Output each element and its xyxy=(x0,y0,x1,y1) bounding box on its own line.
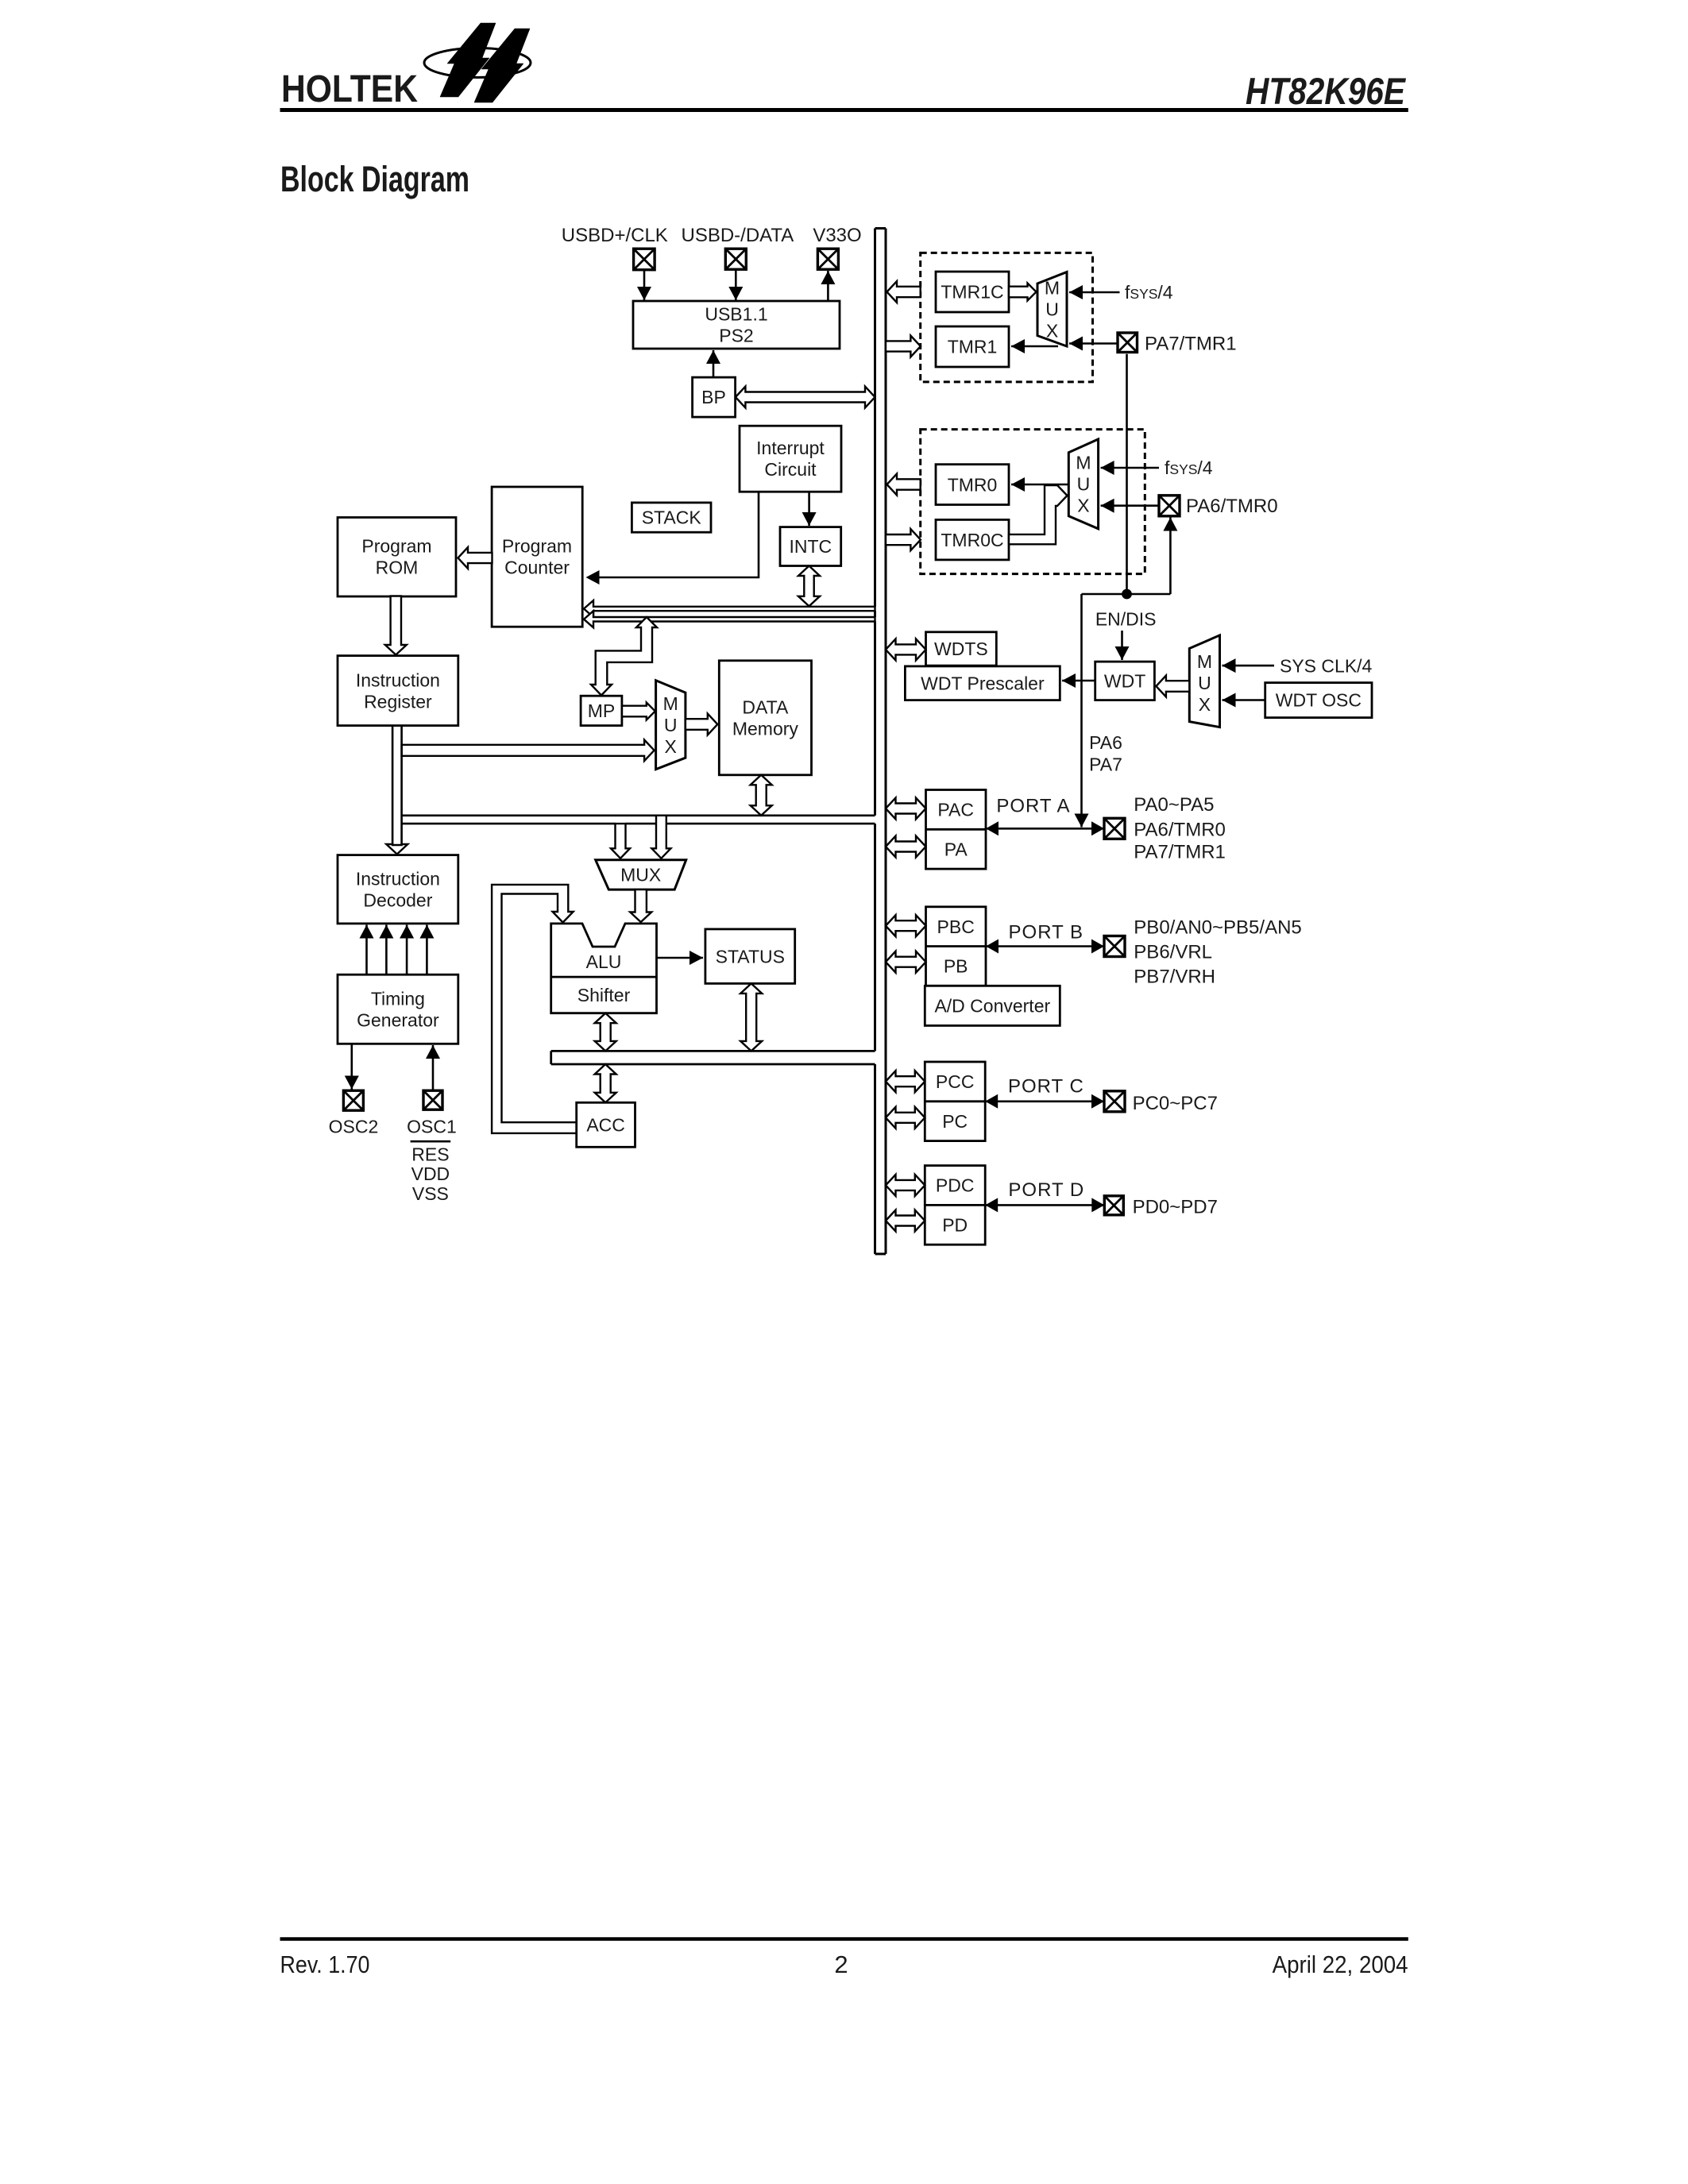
mux MUX timer0 xyxy=(1068,439,1098,529)
block INTC xyxy=(780,527,841,566)
svg-text:USBD+/CLK: USBD+/CLK xyxy=(562,225,668,246)
wire junction down to Port A xyxy=(1080,594,1083,828)
bus data line B to Program Counter xyxy=(584,611,875,627)
svg-text:PDC: PDC xyxy=(936,1175,975,1196)
bus arrow STATUS to data bus xyxy=(740,983,762,1051)
wire PA6/TMR0 pad to timer0 MUX xyxy=(1101,504,1159,507)
block TMR1 xyxy=(936,326,1009,367)
svg-text:PORT B: PORT B xyxy=(1009,921,1083,943)
pad V33O xyxy=(817,249,838,269)
svg-text:HT82K96E: HT82K96E xyxy=(1246,70,1406,112)
svg-text:WDT OSC: WDT OSC xyxy=(1276,690,1362,711)
svg-text:WDT: WDT xyxy=(1104,671,1145,692)
svg-text:ALU: ALU xyxy=(586,951,622,972)
system bus bottom cap xyxy=(875,1252,886,1255)
svg-text:OSC2: OSC2 xyxy=(329,1117,379,1137)
svg-text:WDT Prescaler: WDT Prescaler xyxy=(921,673,1045,694)
svg-text:HOLTEK: HOLTEK xyxy=(281,68,418,110)
wire Timing Generator to Instruction Decoder 3 xyxy=(406,925,408,975)
svg-text:PA6: PA6 xyxy=(1089,732,1122,753)
bus arrow MUX to ALU xyxy=(630,889,651,922)
wire Timing Generator to OSC2 pad xyxy=(350,1044,353,1089)
block WDT xyxy=(1095,662,1155,700)
wire PA7 pad down to junction xyxy=(1126,354,1128,594)
block Instruction Decoder xyxy=(338,855,458,924)
svg-text:STACK: STACK xyxy=(642,507,702,528)
node junction PA7 line xyxy=(1122,589,1132,600)
svg-text:TMR0: TMR0 xyxy=(948,474,998,495)
block A/D Converter xyxy=(925,986,1060,1025)
wire WDT OSC to WDT MUX xyxy=(1223,699,1265,701)
wire ALU to STATUS xyxy=(657,957,704,959)
bus arrow TMR1C to MUX xyxy=(1009,284,1037,301)
wire USBD-/DATA to USB block xyxy=(735,270,737,300)
svg-text:PB0/AN0~PB5/AN5: PB0/AN0~PB5/AN5 xyxy=(1134,917,1301,939)
wire MUX to TMR1 xyxy=(1011,345,1058,348)
svg-text:EN/DIS: EN/DIS xyxy=(1095,609,1157,630)
svg-text:PS2: PS2 xyxy=(719,326,753,346)
pad OSC2 xyxy=(343,1090,363,1110)
wire Port A to pad xyxy=(986,828,1104,830)
block Program ROM xyxy=(338,518,456,597)
svg-text:PORT C: PORT C xyxy=(1008,1075,1084,1097)
bus arrow MP to MUX xyxy=(622,703,655,720)
internal data bus channel xyxy=(551,1051,875,1064)
wire Interrupt Circuit to INTC xyxy=(808,492,810,526)
svg-text:PA7/TMR1: PA7/TMR1 xyxy=(1134,842,1226,863)
bus arrow system bus to PCC xyxy=(886,1071,925,1092)
svg-text:Timing: Timing xyxy=(371,988,425,1009)
bus arrow INTC to data line xyxy=(798,566,820,607)
block PBC and PB xyxy=(926,907,987,986)
svg-text:Instruction: Instruction xyxy=(356,868,440,889)
system bus right rail xyxy=(885,229,887,1254)
bus arrow system bus to TMR0C xyxy=(886,529,921,550)
svg-text:M: M xyxy=(1045,278,1060,299)
bus arrow TMR0C to MUX elbow xyxy=(1009,485,1068,544)
svg-text:Counter: Counter xyxy=(504,558,570,578)
block Timing Generator xyxy=(338,974,458,1044)
svg-text:Memory: Memory xyxy=(732,719,799,739)
bus arrow system bus to PC xyxy=(886,1107,925,1129)
dashed box Timer 1 xyxy=(921,253,1093,382)
wire fsys/4 to timer1 MUX xyxy=(1069,291,1120,294)
svg-text:USBD-/DATA: USBD-/DATA xyxy=(682,225,794,246)
svg-text:M: M xyxy=(663,693,678,714)
svg-text:U: U xyxy=(1198,673,1211,693)
wire Port C to pad xyxy=(985,1101,1104,1103)
mux MUX WDT clock xyxy=(1189,635,1219,727)
svg-text:M: M xyxy=(1076,453,1091,473)
svg-text:PAC: PAC xyxy=(937,800,974,820)
block WDT Prescaler xyxy=(905,666,1060,700)
svg-text:MUX: MUX xyxy=(620,865,661,886)
svg-text:PCC: PCC xyxy=(936,1071,975,1092)
svg-text:STATUS: STATUS xyxy=(716,946,785,967)
svg-text:PD0~PD7: PD0~PD7 xyxy=(1133,1196,1218,1217)
bus arrow system bus to PB xyxy=(886,951,926,973)
svg-text:ACC: ACC xyxy=(586,1115,625,1136)
svg-text:VDD: VDD xyxy=(411,1163,450,1184)
wire fsys/4 to timer0 MUX xyxy=(1101,467,1159,469)
pad USBD+/CLK xyxy=(634,249,655,270)
block STACK xyxy=(632,503,711,532)
wire Instruction Register down-channel xyxy=(392,726,402,845)
bus arrow to Instruction Decoder head xyxy=(386,844,408,855)
svg-text:ROM: ROM xyxy=(376,558,419,578)
pad OSC1 xyxy=(423,1090,442,1109)
bus arrow TMR0 to system bus xyxy=(887,474,921,496)
wire Interrupt Circuit to Program Counter xyxy=(588,492,759,577)
bus arrow Program Counter to Program ROM xyxy=(458,547,492,569)
svg-text:Circuit: Circuit xyxy=(764,459,817,480)
mux MUX timer1 xyxy=(1037,272,1067,347)
bus arrow ACC feedback to ALU xyxy=(492,885,577,1133)
Holtek logo ellipse xyxy=(424,48,531,78)
svg-text:V33O: V33O xyxy=(813,225,861,246)
bus arrow Instruction Register to MUX xyxy=(402,740,655,762)
svg-text:PORT D: PORT D xyxy=(1008,1179,1084,1201)
svg-text:PB: PB xyxy=(944,956,968,977)
block TMR0C xyxy=(936,519,1009,560)
svg-text:2: 2 xyxy=(834,1951,848,1978)
bus arrow system bus to PAC xyxy=(886,798,926,820)
svg-text:PB7/VRH: PB7/VRH xyxy=(1134,967,1215,988)
block WDT OSC xyxy=(1265,683,1372,718)
svg-text:DATA: DATA xyxy=(742,697,789,718)
bus data line A to Program Counter xyxy=(584,600,875,617)
Holtek logo flash 1 xyxy=(440,23,496,97)
svg-text:Generator: Generator xyxy=(357,1009,439,1030)
svg-text:Program: Program xyxy=(502,536,572,557)
system bus left rail xyxy=(874,229,876,1254)
block Program Counter xyxy=(492,487,582,627)
bus arrow system bus to PBC xyxy=(886,915,926,936)
svg-text:Interrupt: Interrupt xyxy=(756,438,825,458)
svg-text:X: X xyxy=(1199,694,1211,715)
svg-text:TMR0C: TMR0C xyxy=(941,530,1003,550)
svg-text:PD: PD xyxy=(942,1215,968,1236)
data channel E to bus xyxy=(402,816,875,824)
bus arrow TMR1C to system bus xyxy=(887,281,921,303)
header rule xyxy=(280,108,1408,112)
svg-text:PA7: PA7 xyxy=(1089,754,1122,775)
pad PA6/TMR0 xyxy=(1159,496,1180,516)
bus arrow system bus to PDC xyxy=(886,1175,925,1196)
block STATUS xyxy=(705,929,795,984)
svg-text:BP: BP xyxy=(701,387,726,407)
block Instruction Register xyxy=(338,656,458,726)
bus arrow MUX to WDT xyxy=(1156,676,1189,697)
block PDC and PD xyxy=(925,1166,985,1245)
bus arrow BP to system bus xyxy=(736,387,875,408)
svg-text:MP: MP xyxy=(588,700,616,721)
wire USBD+/CLK to USB block xyxy=(643,270,646,300)
wire USB block to V33O pad xyxy=(827,271,829,301)
wire PA7/TMR1 pad to timer1 MUX xyxy=(1069,342,1118,345)
footer rule xyxy=(280,1937,1408,1941)
svg-text:U: U xyxy=(664,715,678,735)
dashed box Timer 0 xyxy=(921,430,1145,574)
wire BP to USB block xyxy=(713,350,715,377)
svg-text:April 22, 2004: April 22, 2004 xyxy=(1273,1951,1408,1978)
Holtek logo flash 2 xyxy=(474,29,530,102)
pad Port A xyxy=(1104,818,1125,839)
svg-text:PC: PC xyxy=(942,1111,968,1132)
bus arrow channel to MUX left xyxy=(611,824,630,859)
svg-text:Program: Program xyxy=(361,536,431,557)
wire OSC1 pad to Timing Generator xyxy=(432,1045,435,1090)
svg-text:PA6/TMR0: PA6/TMR0 xyxy=(1134,819,1226,840)
bus arrow system bus to PA xyxy=(886,836,926,858)
svg-text:USB1.1: USB1.1 xyxy=(705,304,767,325)
block TMR0 xyxy=(936,465,1009,505)
svg-text:X: X xyxy=(665,736,677,757)
svg-text:PA7/TMR1: PA7/TMR1 xyxy=(1145,334,1237,355)
bus arrow system bus to TMR1 xyxy=(886,336,921,357)
svg-text:Register: Register xyxy=(364,691,432,712)
system bus top cap xyxy=(875,227,886,230)
svg-text:RES: RES xyxy=(411,1144,449,1165)
block MP xyxy=(581,696,622,725)
wire WDT to WDT Prescaler xyxy=(1062,680,1095,682)
mux MUX ALU input xyxy=(596,860,686,889)
pad USBD-/DATA xyxy=(725,249,746,269)
svg-text:PBC: PBC xyxy=(937,916,975,937)
bus arrow system bus to WDTS xyxy=(886,639,926,660)
wire Port D to pad xyxy=(985,1204,1104,1206)
svg-text:INTC: INTC xyxy=(789,536,832,557)
wire Timing Generator to Instruction Decoder 4 xyxy=(426,925,428,975)
bus arrow system bus to PD xyxy=(886,1210,925,1232)
svg-text:PORT A: PORT A xyxy=(996,796,1070,817)
bus arrow Shifter to data bus xyxy=(595,1013,616,1051)
bus arrow Program ROM to Instruction Register xyxy=(385,596,407,655)
svg-text:X: X xyxy=(1046,321,1058,341)
block PCC and PC xyxy=(925,1062,985,1141)
block Data Memory xyxy=(719,661,811,775)
svg-text:U: U xyxy=(1045,299,1059,320)
block TMR1C xyxy=(936,272,1009,312)
wire Port B to pad xyxy=(986,945,1104,947)
block PAC and PA xyxy=(926,790,987,870)
svg-text:PC0~PC7: PC0~PC7 xyxy=(1133,1093,1218,1114)
wire junction horizontal xyxy=(1082,593,1171,596)
block USB1.1 PS2 xyxy=(633,301,840,349)
wire Timing Generator to Instruction Decoder 2 xyxy=(385,925,388,975)
bus arrow data line to MP xyxy=(591,617,657,696)
svg-text:Shifter: Shifter xyxy=(577,985,631,1005)
svg-text:TMR1C: TMR1C xyxy=(941,282,1003,303)
svg-text:WDTS: WDTS xyxy=(934,639,988,659)
wire MUX to TMR0 xyxy=(1011,484,1068,486)
svg-text:Decoder: Decoder xyxy=(363,889,432,910)
block WDTS xyxy=(926,632,997,666)
block ALU with Shifter xyxy=(551,924,657,1013)
pad Port D xyxy=(1104,1196,1123,1215)
bus arrow Data Memory to data bus xyxy=(751,775,772,816)
wire SYS CLK/4 to WDT MUX xyxy=(1223,665,1275,667)
pad PA7/TMR1 xyxy=(1118,333,1138,353)
svg-text:SYS CLK/4: SYS CLK/4 xyxy=(1280,655,1373,676)
pad Port C xyxy=(1104,1091,1125,1112)
wire junction up to PA6 pad xyxy=(1169,518,1172,595)
svg-text:M: M xyxy=(1197,651,1212,672)
wire EN/DIS to WDT xyxy=(1121,631,1123,660)
svg-text:PA: PA xyxy=(944,839,968,859)
block Interrupt Circuit xyxy=(740,426,841,492)
svg-text:Rev. 1.70: Rev. 1.70 xyxy=(280,1951,370,1978)
bus arrow data bus to ACC xyxy=(595,1064,616,1102)
block ACC xyxy=(577,1102,635,1147)
pad Port B xyxy=(1104,936,1125,957)
svg-text:PA0~PA5: PA0~PA5 xyxy=(1134,794,1214,816)
svg-text:U: U xyxy=(1077,474,1091,495)
svg-text:OSC1: OSC1 xyxy=(407,1117,457,1137)
svg-text:TMR1: TMR1 xyxy=(948,337,998,357)
svg-text:PA6/TMR0: PA6/TMR0 xyxy=(1186,496,1278,517)
bus arrow MUX to Data Memory xyxy=(686,714,717,735)
svg-text:Instruction: Instruction xyxy=(356,669,440,690)
svg-text:Block Diagram: Block Diagram xyxy=(280,159,469,199)
block BP xyxy=(693,377,736,417)
svg-text:A/D Converter: A/D Converter xyxy=(934,996,1050,1017)
svg-text:PB6/VRL: PB6/VRL xyxy=(1134,942,1212,963)
mux MUX data memory address xyxy=(656,681,686,770)
svg-text:X: X xyxy=(1077,496,1089,516)
wire Timing Generator to Instruction Decoder 1 xyxy=(365,925,368,975)
bus arrow channel to MUX right xyxy=(651,816,670,859)
svg-text:VSS: VSS xyxy=(412,1183,449,1204)
